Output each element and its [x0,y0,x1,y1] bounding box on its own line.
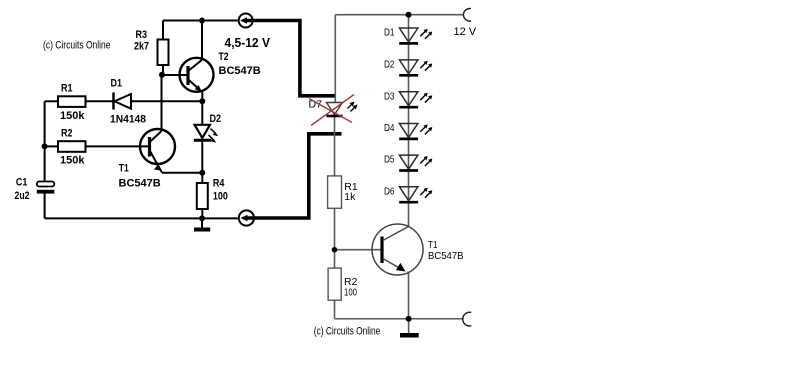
wire T2 emitter stem [201,92,203,102]
wire D2 cathode stem [201,141,203,173]
diode D1 1N4148 [114,93,132,110]
transistor T2 BC547B [180,58,214,92]
LED D2 [194,125,219,143]
terminal bottom left [239,210,254,225]
node T2 emitter/D1/D2 [199,98,205,104]
svg-text:2k7: 2k7 [134,41,149,53]
svg-text:1k: 1k [344,191,356,203]
LED D5 [399,155,418,170]
svg-text:T2: T2 [219,51,229,63]
svg-text:D4: D4 [384,122,395,134]
svg-text:R3: R3 [136,29,148,41]
wire R2 row left [45,145,58,147]
wire LED column [408,15,410,203]
svg-text:100: 100 [213,191,228,203]
wire C1 bottom stem [44,194,46,219]
wire R4 bottom stem [201,209,203,218]
wire R2 to T1 base [86,145,150,147]
LED D7 (crossed out) [327,103,343,117]
node rail/T2 collector [199,18,205,24]
wire R3 bottom stem to node [162,65,164,76]
wire top rail right [335,14,464,16]
LED D2 [399,60,418,75]
wire D2 anode stem [201,101,203,125]
svg-text:100: 100 [344,287,357,299]
thick wire top supply [244,21,336,96]
ground left [201,218,203,227]
wire base T1 right [335,249,382,251]
node R3/T2 base/T1 collector [159,72,165,78]
svg-text:D2: D2 [210,113,222,125]
resistor R1 1k (right) [328,176,342,208]
resistor R2 100 (right) [328,268,341,300]
node top rail/LED column [406,12,412,18]
svg-text:R2: R2 [61,128,73,140]
svg-text:150k: 150k [60,155,85,167]
wire collector stem right [408,203,410,227]
svg-text:D2: D2 [384,59,395,71]
resistor R2 150k [58,141,86,152]
node R4/ground/bottom rail [199,215,205,221]
svg-text:BC547B: BC547B [119,178,161,190]
LED D4 [399,124,418,139]
svg-text:D6: D6 [384,185,395,197]
wire left column [44,101,46,181]
wire D7 column top [334,15,336,103]
D7 light arrows [348,102,358,112]
wire ground stem right [408,319,410,333]
node emitter/ground/bottom rail [406,316,412,322]
svg-text:D1: D1 [384,27,395,39]
wire T2 base [162,74,188,76]
svg-text:D3: D3 [384,90,395,102]
wire R4 top stem [201,173,203,183]
svg-text:(c) Circuits Online: (c) Circuits Online [43,40,111,52]
LED D6 [399,187,418,202]
svg-text:1N4148: 1N4148 [110,114,146,126]
svg-text:(c) Circuits Online: (c) Circuits Online [314,326,381,338]
red cross over D7 [311,95,354,126]
resistor R4 100 [197,183,208,209]
transistor T1 BC547B [140,129,175,173]
wire top rail [163,20,239,22]
svg-text:R1: R1 [61,83,73,95]
thick wire bottom supply [246,134,341,218]
resistor R1 150k [58,96,86,107]
wire R1 row left [45,100,58,102]
svg-text:150k: 150k [60,110,85,122]
svg-text:T1: T1 [119,163,129,175]
svg-text:4,5-12 V: 4,5-12 V [225,35,271,50]
wire R1 to R2 column [334,208,336,268]
node T1 emitter/D2/R4 [199,170,205,176]
svg-text:BC547B: BC547B [428,250,464,262]
svg-text:C1: C1 [16,177,28,189]
D2 light arrows [211,129,217,135]
wire D7 to R1 [334,117,336,176]
LED D1 [399,28,418,43]
ground right [400,333,419,338]
svg-text:D5: D5 [384,154,395,166]
resistor R3 2k7 [158,40,169,66]
wire D1 to node [131,100,202,102]
node R1/R2/base [332,247,338,253]
wire R2 bottom stem [334,300,336,319]
terminal bottom right [463,312,472,326]
wire R3 top stem [162,21,164,41]
svg-text:D1: D1 [111,78,123,90]
capacitor C1 2u2 [37,182,55,187]
terminal 12V top right [463,8,470,21]
wire bottom rail [45,217,239,219]
LED D3 [399,92,418,107]
wire T1 emitter run [162,172,202,174]
svg-text:12 V: 12 V [454,26,477,38]
wire T1 collector stem [161,74,163,131]
node R1/R2/column [42,143,48,149]
svg-text:BC547B: BC547B [219,65,261,77]
terminal top left 4,5-12V [239,14,253,28]
svg-text:2u2: 2u2 [15,190,30,202]
wire emitter stem right [408,272,410,319]
wire R1 to D1 [86,100,114,102]
wire bottom rail right [335,318,464,320]
wire T2 collector stem [201,21,203,60]
svg-text:R4: R4 [213,178,225,190]
transistor T1 BC547B (right) [372,224,423,275]
